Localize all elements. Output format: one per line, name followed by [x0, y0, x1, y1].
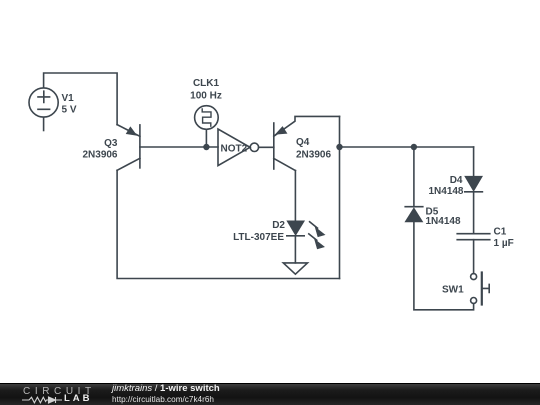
V1 value label	[62, 93, 77, 116]
CircuitLab logo waveform symbol	[22, 396, 64, 404]
D5 value label	[426, 207, 461, 228]
wire top rail to D4/D5 branches	[340, 146, 474, 148]
CircuitLab logo wordmark	[23, 386, 96, 397]
wire SW1 bottom around to D5 bottom	[414, 221, 474, 309]
CircuitLab logo LAB text	[64, 393, 93, 404]
svg-text:Q4: Q4	[296, 137, 310, 148]
svg-text:LTL-307EE: LTL-307EE	[233, 232, 284, 243]
C1 value label	[494, 227, 514, 250]
svg-text:CLK1: CLK1	[193, 78, 220, 89]
wire V1 top to Q3 emitter	[44, 73, 118, 125]
svg-text:1 µF: 1 µF	[494, 238, 514, 249]
wire C1 to SW1	[473, 240, 475, 274]
wire Q3 base to NOT2 input	[140, 146, 218, 148]
svg-text:1N4148: 1N4148	[426, 216, 461, 227]
capacitor C1	[457, 234, 490, 240]
ground	[283, 263, 307, 274]
diode D5	[405, 207, 423, 222]
footer bar	[0, 383, 540, 405]
wire Q4 emitter riser down to bottom rail	[339, 116, 341, 278]
clock source CLK1	[195, 106, 219, 147]
wire D5 top to junction	[413, 147, 415, 207]
node junction D5 branch	[411, 144, 417, 150]
wire Q4 collector down to LED D2	[294, 171, 296, 222]
footer url text	[112, 395, 214, 404]
Q4 value label	[296, 137, 331, 161]
svg-text:100 Hz: 100 Hz	[190, 91, 222, 102]
D4 value label	[428, 175, 463, 197]
D2 value label	[233, 220, 285, 243]
svg-text:2N3906: 2N3906	[82, 150, 117, 161]
wire junction down to D4	[473, 147, 475, 177]
svg-text:1N4148: 1N4148	[428, 186, 463, 197]
svg-text:SW1: SW1	[442, 285, 464, 296]
wire LED to ground	[294, 236, 296, 263]
Q3 value label	[82, 138, 117, 161]
svg-text:D2: D2	[272, 220, 285, 231]
svg-text:NOT2: NOT2	[221, 144, 248, 155]
wire NOT2 output to Q4 base	[259, 146, 274, 148]
CLK1 value label	[190, 78, 222, 102]
svg-text:Q3: Q3	[104, 138, 118, 149]
wire bottom rail Q3 collector to Q4 emitter riser	[117, 170, 339, 278]
svg-text:5 V: 5 V	[62, 105, 77, 116]
node junction at CLK1 / Q3 base	[203, 144, 209, 150]
voltage source V1	[29, 88, 58, 131]
node junction Q4 emitter / right branch	[336, 144, 342, 150]
footer title text	[112, 383, 220, 394]
diode D4	[465, 177, 483, 192]
svg-text:D4: D4	[450, 175, 463, 186]
svg-text:2N3906: 2N3906	[296, 150, 331, 161]
transistor Q3	[117, 125, 140, 171]
switch SW1	[471, 273, 490, 305]
svg-text:C1: C1	[494, 227, 507, 238]
transistor Q4	[274, 116, 340, 170]
wire D4 to C1	[473, 192, 475, 234]
svg-text:V1: V1	[62, 93, 75, 104]
LED D2	[287, 221, 325, 249]
inverter NOT2	[218, 129, 259, 166]
